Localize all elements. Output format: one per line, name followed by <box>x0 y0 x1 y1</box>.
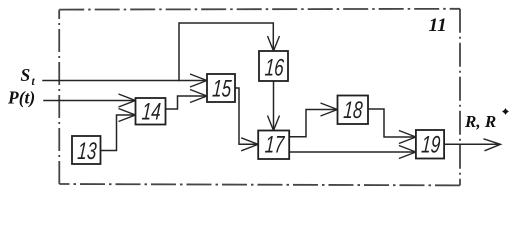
border left <box>58 10 60 184</box>
svg-text:13: 13 <box>77 138 98 164</box>
arrowhead into 14 lower <box>119 109 136 122</box>
arrowhead into 15 lower <box>190 90 207 103</box>
arrowhead into 17 down from 16 <box>268 116 280 131</box>
wire block 17 to block 18 <box>289 110 336 137</box>
svg-text:P(t): P(t) <box>7 87 35 107</box>
wire branch from St up over to block 16 <box>179 23 273 81</box>
wire block 15 to block 17 <box>235 88 257 144</box>
border bottom <box>59 184 460 185</box>
block 18 <box>338 96 369 125</box>
svg-text:15: 15 <box>211 76 232 102</box>
svg-text:11: 11 <box>429 15 447 36</box>
wire block 19 output R <box>444 143 499 145</box>
dash-dot enclosure border 11 <box>59 9 460 186</box>
svg-text:16: 16 <box>264 55 285 81</box>
arrowhead into 16 down <box>268 36 280 51</box>
svg-text:19: 19 <box>420 132 441 158</box>
arrowhead into 17 left <box>241 138 258 151</box>
arrowhead into 15 upper <box>190 74 207 87</box>
block 15 <box>207 74 235 102</box>
wire block 13 to block 14 <box>101 115 135 151</box>
svg-text:14: 14 <box>141 99 162 125</box>
svg-text:S: S <box>21 65 31 85</box>
block 14 <box>136 98 166 125</box>
arrowhead into 19 lower <box>399 146 416 159</box>
wire P(t) input to block 14 <box>44 100 135 102</box>
arrowhead output R <box>484 139 501 151</box>
wire block 16 to block 17 <box>273 81 275 130</box>
svg-text:t: t <box>32 76 36 88</box>
arrowhead into 18 <box>321 103 338 116</box>
svg-text:17: 17 <box>264 132 286 158</box>
block 16 <box>259 51 288 81</box>
block 17 <box>258 131 289 160</box>
arrowhead into 14 upper <box>119 94 136 107</box>
wire block 18 to block 19 <box>368 109 415 137</box>
wire block 17 to block 19 lower <box>289 151 415 153</box>
arrowhead into 19 upper <box>399 131 416 144</box>
block 19 <box>416 130 444 159</box>
border right <box>459 9 461 186</box>
svg-text:18: 18 <box>343 97 364 123</box>
border top <box>59 8 460 11</box>
wire block 14 to block 15 <box>166 96 207 109</box>
svg-text:R, R: R, R <box>464 112 496 131</box>
block 13 <box>72 136 101 164</box>
star superscript <box>503 109 508 114</box>
wire St input to block 15 <box>43 80 206 82</box>
